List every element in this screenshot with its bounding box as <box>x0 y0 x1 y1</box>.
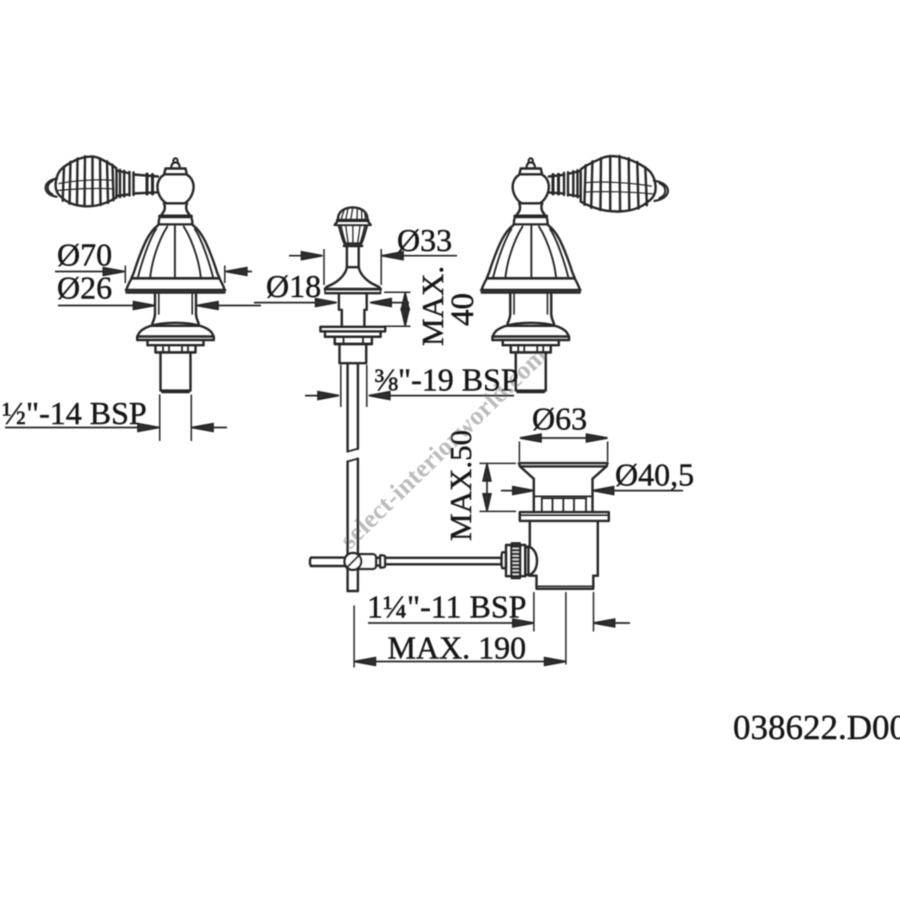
svg-text:½"-14 BSP: ½"-14 BSP <box>2 395 147 431</box>
svg-text:40: 40 <box>445 293 481 326</box>
svg-text:1¼"-11 BSP: 1¼"-11 BSP <box>367 589 526 625</box>
svg-text:Ø63: Ø63 <box>532 401 587 437</box>
svg-text:Ø70: Ø70 <box>57 237 112 273</box>
svg-text:⅜"-19 BSP: ⅜"-19 BSP <box>374 362 519 398</box>
svg-text:MAX.50: MAX.50 <box>443 430 478 541</box>
svg-text:Ø33: Ø33 <box>397 222 452 258</box>
svg-text:Ø26: Ø26 <box>57 270 112 306</box>
svg-text:Ø18: Ø18 <box>266 268 321 304</box>
svg-text:MAX. 190: MAX. 190 <box>388 630 527 666</box>
svg-text:038622.D00: 038622.D00 <box>733 708 900 747</box>
svg-text:Ø40,5: Ø40,5 <box>615 457 694 493</box>
